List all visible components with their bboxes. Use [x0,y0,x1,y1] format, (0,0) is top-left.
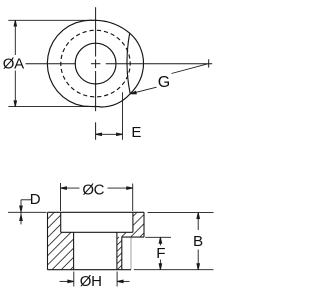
extension lines [8,19,96,21]
dimension F [145,237,171,269]
hatch B [48,232,53,237]
svg-text:F: F [156,245,165,262]
horizontal centerline [26,63,76,65]
hidden dashed circle [61,30,130,97]
svg-text:ØA: ØA [3,56,24,73]
plus mark at G arc centre [208,59,210,67]
svg-text:ØC: ØC [82,182,104,199]
shallow concave arc (radius G scallop) between kinks [127,33,130,94]
dimension B [134,213,214,270]
dimension E [96,92,123,140]
inner bore circle [75,43,116,84]
svg-text:G: G [158,74,170,91]
dimension H [60,272,130,287]
hatch C [133,212,137,216]
dimension A [8,20,97,106]
hatch D [121,232,126,237]
dimension C [61,183,133,211]
hatched areas [48,212,145,269]
hatch E [117,237,119,239]
svg-text:ØH: ØH [80,273,102,290]
svg-text:D: D [30,191,41,208]
dimension line [14,20,16,55]
vertical centerline [95,7,97,56]
section outline [48,212,145,269]
lobe arc radius G (right bulge) [130,33,144,94]
hatch A [48,212,55,219]
svg-text:E: E [131,124,141,141]
faint background edge [130,237,132,270]
label G with leader [130,64,209,94]
dimension D [8,200,47,225]
centerlines [26,7,213,140]
outline main circle (eccentric body), arc from top kink over left to bottom kink [47,20,130,107]
svg-text:B: B [193,233,203,250]
